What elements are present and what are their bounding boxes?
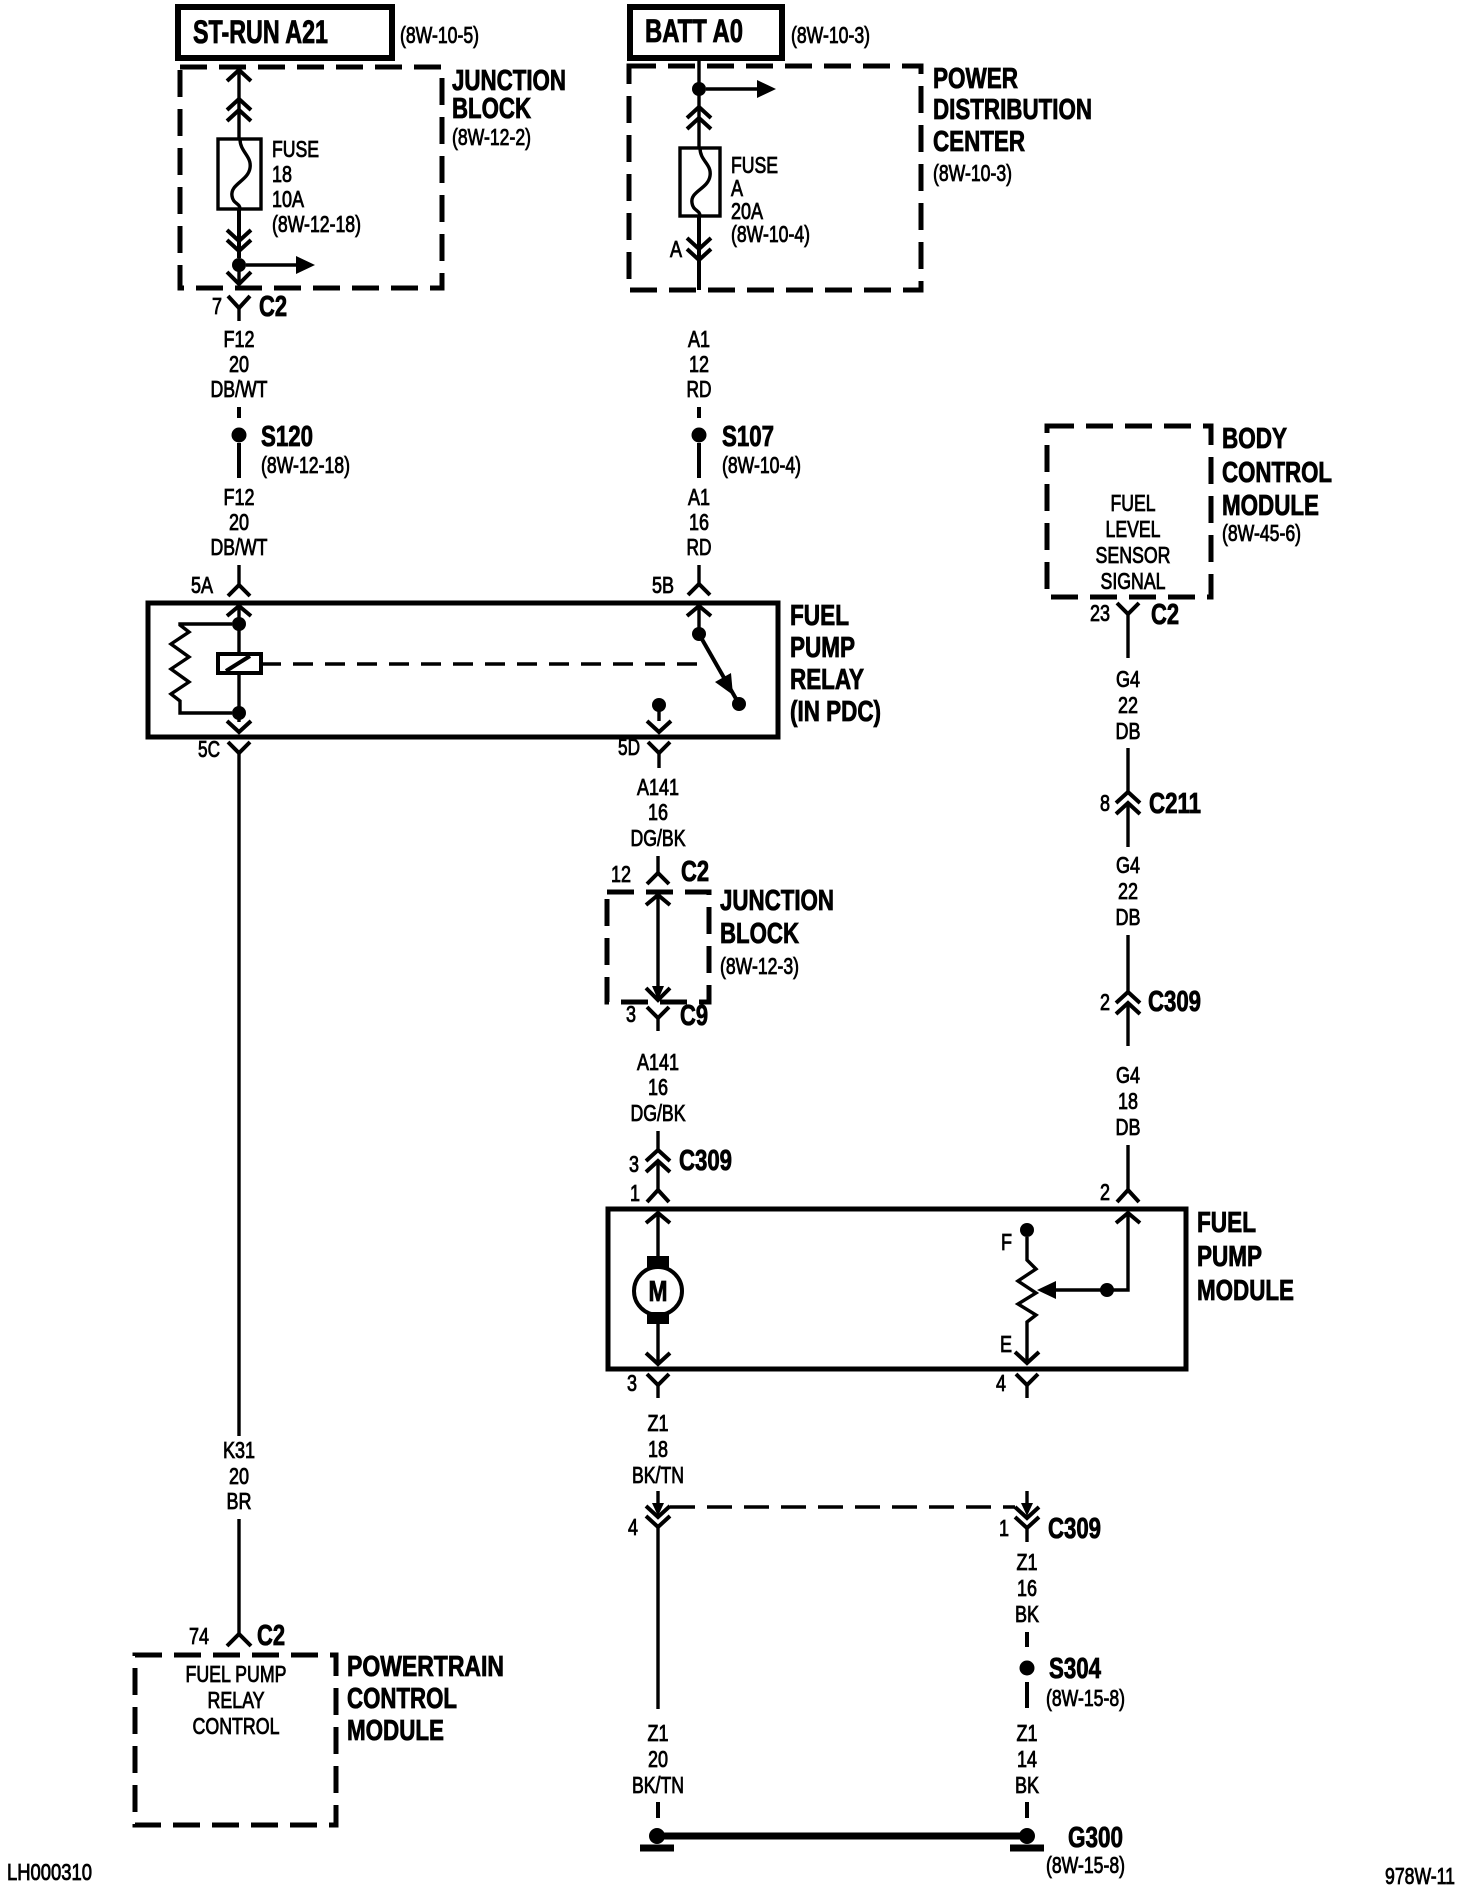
- wire into splice S120: [237, 407, 241, 418]
- wire C309 pin 4 down to ground: [656, 1527, 659, 1709]
- svg-text:4: 4: [996, 1370, 1006, 1396]
- svg-text:(8W-12-3): (8W-12-3): [720, 953, 799, 979]
- fuel pump module pin 3: [627, 1370, 669, 1398]
- svg-text:20: 20: [648, 1746, 668, 1772]
- relay switch output node: [647, 698, 671, 732]
- relay coil top node: [232, 617, 246, 631]
- svg-text:C2: C2: [1151, 599, 1179, 631]
- wire into connector C2 pin 12: [656, 856, 659, 873]
- svg-text:18: 18: [1118, 1088, 1138, 1114]
- svg-text:3: 3: [629, 1151, 639, 1177]
- svg-text:A1: A1: [688, 326, 710, 352]
- svg-text:RD: RD: [687, 534, 712, 560]
- svg-text:DG/BK: DG/BK: [631, 1100, 687, 1126]
- fuel pump module pin 2: [1100, 1179, 1139, 1205]
- svg-text:23: 23: [1090, 600, 1110, 626]
- svg-text:3: 3: [626, 1001, 636, 1027]
- wire into connector C309 pin 2: [1126, 935, 1129, 992]
- wire label Z1 14 BK: [1015, 1720, 1040, 1798]
- svg-text:SENSOR: SENSOR: [1096, 542, 1171, 568]
- svg-text:(8W-45-6): (8W-45-6): [1222, 520, 1301, 546]
- wire into connector C309 pin 3: [656, 1131, 659, 1150]
- junction dot in junction block: [232, 258, 246, 272]
- svg-text:12: 12: [689, 351, 709, 377]
- wire label G4 22 DB (middle): [1116, 852, 1141, 930]
- relay terminal 5D: [618, 734, 670, 768]
- svg-text:14: 14: [1017, 1746, 1037, 1772]
- relay switch common node: [692, 627, 706, 641]
- svg-text:BR: BR: [227, 1488, 252, 1514]
- relay coil input pin arrow: [227, 606, 251, 624]
- wire through junction block: [646, 895, 670, 1000]
- fuel pump motor M1: [634, 1213, 682, 1364]
- svg-text:DB: DB: [1116, 718, 1141, 744]
- relay switch common pin arrow: [687, 606, 711, 634]
- svg-text:M: M: [649, 1276, 668, 1308]
- junction dot in PDC: [692, 82, 706, 96]
- svg-text:FUEL: FUEL: [1197, 1207, 1256, 1239]
- svg-text:BLOCK: BLOCK: [720, 918, 799, 950]
- svg-text:ST-RUN A21: ST-RUN A21: [193, 14, 328, 50]
- svg-text:74: 74: [189, 1623, 209, 1649]
- wire 5C to PCM: [237, 768, 240, 1436]
- svg-text:A141: A141: [637, 1049, 679, 1075]
- ground G300: [1010, 1822, 1125, 1878]
- svg-text:BK/TN: BK/TN: [632, 1462, 684, 1488]
- svg-text:16: 16: [648, 1074, 668, 1100]
- wire label Z1 16 BK: [1015, 1549, 1040, 1627]
- svg-text:FUEL: FUEL: [1111, 490, 1156, 516]
- wire into left ground node: [656, 1802, 660, 1818]
- svg-text:18: 18: [272, 161, 292, 187]
- svg-text:978W-11: 978W-11: [1385, 1863, 1455, 1889]
- svg-text:BODY: BODY: [1222, 423, 1287, 455]
- relay coil resistor: [171, 624, 232, 713]
- svg-text:BLOCK: BLOCK: [452, 93, 531, 125]
- svg-text:1: 1: [999, 1515, 1009, 1541]
- fuel level sensor resistor: [1000, 1223, 1039, 1363]
- svg-text:A141: A141: [637, 774, 679, 800]
- svg-text:POWER: POWER: [933, 63, 1018, 95]
- relay actuation dashed link: [261, 662, 700, 666]
- svg-text:CENTER: CENTER: [933, 126, 1025, 158]
- svg-text:Z1: Z1: [648, 1720, 669, 1746]
- svg-text:(8W-10-4): (8W-10-4): [731, 221, 810, 247]
- wire label F12 20 DB/WT (upper): [211, 326, 268, 402]
- svg-text:20: 20: [229, 1463, 249, 1489]
- connector C2 pin 12: [611, 856, 709, 888]
- svg-text:BK/TN: BK/TN: [632, 1772, 684, 1798]
- wire label Z1 18 BK/TN: [632, 1410, 684, 1488]
- svg-text:8: 8: [1100, 790, 1110, 816]
- svg-text:G300: G300: [1068, 1822, 1123, 1854]
- connector C309 pin 1: [999, 1491, 1101, 1545]
- left ground node: [640, 1828, 674, 1848]
- svg-text:DB/WT: DB/WT: [211, 534, 268, 560]
- wire label A1 12 RD: [687, 326, 712, 402]
- wire label A141 16 DG/BK (lower): [631, 1049, 687, 1126]
- svg-text:5C: 5C: [198, 736, 220, 762]
- relay terminal 5B: [652, 565, 710, 598]
- fuel pump module pin 1: [630, 1180, 669, 1206]
- svg-text:DISTRIBUTION: DISTRIBUTION: [933, 94, 1092, 126]
- svg-text:PUMP: PUMP: [790, 632, 855, 664]
- svg-text:(8W-15-8): (8W-15-8): [1046, 1852, 1125, 1878]
- connector C211 pin 8: [1100, 788, 1201, 847]
- svg-text:(8W-12-2): (8W-12-2): [452, 124, 531, 150]
- svg-text:4: 4: [628, 1514, 638, 1540]
- svg-text:F12: F12: [224, 326, 255, 352]
- svg-text:20: 20: [229, 351, 249, 377]
- svg-text:G4: G4: [1116, 852, 1140, 878]
- svg-text:(IN PDC): (IN PDC): [790, 696, 881, 728]
- svg-text:MODULE: MODULE: [347, 1715, 444, 1747]
- power distribution center dashed outline: [629, 63, 1092, 290]
- wire BR to connector C2 pin 74: [237, 1519, 240, 1634]
- dashed connector C309 link: [670, 1505, 1015, 1509]
- svg-text:Z1: Z1: [1017, 1549, 1038, 1575]
- relay coil bottom node: [232, 706, 246, 720]
- svg-text:(8W-15-8): (8W-15-8): [1046, 1685, 1125, 1711]
- svg-text:(8W-10-5): (8W-10-5): [400, 22, 479, 48]
- fuel pump module pin 4: [996, 1370, 1038, 1398]
- svg-text:(8W-12-18): (8W-12-18): [272, 211, 361, 237]
- splice S107: [692, 421, 802, 478]
- svg-text:C2: C2: [681, 856, 709, 888]
- svg-text:CONTROL: CONTROL: [1222, 457, 1332, 489]
- ground bus wire: [657, 1833, 1027, 1840]
- svg-text:C309: C309: [679, 1145, 732, 1177]
- svg-text:A1: A1: [688, 484, 710, 510]
- svg-text:DG/BK: DG/BK: [631, 825, 687, 851]
- svg-text:CONTROL: CONTROL: [193, 1713, 280, 1739]
- svg-text:C211: C211: [1149, 788, 1201, 820]
- connector C2 pin 7: [212, 291, 287, 323]
- fuse 18 10A: [218, 136, 361, 237]
- svg-text:RELAY: RELAY: [790, 664, 864, 696]
- feed arrow to other circuits in PDC: [706, 80, 776, 98]
- svg-text:A: A: [670, 236, 683, 262]
- svg-text:S120: S120: [261, 421, 313, 453]
- svg-text:RD: RD: [687, 376, 712, 402]
- svg-text:LH000310: LH000310: [7, 1859, 92, 1885]
- connector C309 pin 2: [1100, 986, 1201, 1046]
- wire fuse 18 output to C2: [227, 209, 251, 258]
- feed arrow to other circuits: [246, 256, 315, 274]
- svg-text:C309: C309: [1048, 1513, 1101, 1545]
- fuel level sensor wiper feed: [1037, 1213, 1140, 1299]
- junction block (8W-12-2) dashed outline: [180, 65, 566, 288]
- svg-text:5D: 5D: [618, 734, 640, 760]
- splice S304: [1020, 1653, 1126, 1711]
- powertrain control module dashed box: [135, 1651, 504, 1825]
- svg-text:3: 3: [627, 1370, 637, 1396]
- svg-text:16: 16: [648, 799, 668, 825]
- svg-text:BK: BK: [1015, 1772, 1040, 1798]
- svg-text:22: 22: [1118, 878, 1138, 904]
- wire ST-RUN to fuse 18: [227, 70, 251, 139]
- junction block (8W-12-3) dashed outline: [607, 885, 834, 1002]
- wire label G4 18 DB: [1116, 1062, 1141, 1140]
- wire label A1 16 RD: [687, 484, 712, 560]
- svg-text:POWERTRAIN: POWERTRAIN: [347, 1651, 504, 1683]
- wire into connector C211: [1126, 748, 1129, 792]
- wire dot to connector C2 pin 7: [227, 265, 251, 284]
- svg-text:MODULE: MODULE: [1197, 1275, 1294, 1307]
- fuse A output pin A: [670, 216, 711, 290]
- wire label G4 22 DB (upper): [1116, 666, 1141, 744]
- wire into fuel pump module pin 2: [1126, 1145, 1129, 1190]
- svg-text:JUNCTION: JUNCTION: [720, 885, 834, 917]
- svg-text:C2: C2: [257, 1620, 285, 1652]
- svg-text:PUMP: PUMP: [1197, 1241, 1262, 1273]
- svg-text:18: 18: [648, 1436, 668, 1462]
- svg-text:DB: DB: [1116, 904, 1141, 930]
- svg-text:MODULE: MODULE: [1222, 490, 1319, 522]
- wire dot to fuse A: [687, 89, 711, 148]
- wire label F12 20 DB/WT (lower): [211, 484, 268, 560]
- svg-text:12: 12: [611, 861, 631, 887]
- svg-text:FUSE: FUSE: [272, 136, 319, 162]
- body control module dashed outline: [1047, 423, 1332, 597]
- svg-text:FUEL PUMP: FUEL PUMP: [186, 1661, 287, 1687]
- svg-text:RELAY: RELAY: [208, 1687, 265, 1713]
- svg-text:G4: G4: [1116, 1062, 1140, 1088]
- wire into ground G300: [1025, 1802, 1029, 1818]
- connector C2 pin 74: [189, 1620, 285, 1652]
- svg-text:F: F: [1001, 1229, 1012, 1255]
- svg-text:FUEL: FUEL: [790, 600, 849, 632]
- node BATT A0 feed box: [630, 7, 870, 58]
- svg-text:C2: C2: [259, 291, 287, 323]
- fuse A 20A: [680, 148, 810, 247]
- svg-text:C9: C9: [680, 1000, 708, 1032]
- svg-text:S107: S107: [722, 421, 774, 453]
- svg-text:Z1: Z1: [1017, 1720, 1038, 1746]
- svg-text:22: 22: [1118, 692, 1138, 718]
- svg-text:G4: G4: [1116, 666, 1140, 692]
- svg-text:20: 20: [229, 509, 249, 535]
- connector C2 pin 23: [1090, 599, 1179, 658]
- svg-text:5B: 5B: [652, 572, 674, 598]
- svg-text:LEVEL: LEVEL: [1106, 516, 1161, 542]
- wire label K31 20 BR: [223, 1437, 255, 1514]
- svg-text:(8W-10-3): (8W-10-3): [933, 160, 1012, 186]
- svg-text:K31: K31: [223, 1437, 255, 1463]
- wire through relay coil: [237, 624, 240, 713]
- wire BATT A0 into PDC: [697, 58, 700, 89]
- relay terminal 5C: [198, 736, 250, 768]
- relay switch blade: [699, 634, 746, 711]
- svg-text:(8W-10-4): (8W-10-4): [722, 452, 801, 478]
- relay coil output to 5C: [227, 713, 251, 732]
- connector C9 pin 3: [626, 1000, 708, 1032]
- svg-text:1: 1: [630, 1180, 640, 1206]
- splice S120: [232, 421, 351, 478]
- wire into splice S107: [697, 407, 701, 418]
- svg-text:BK: BK: [1015, 1601, 1040, 1627]
- svg-text:16: 16: [689, 509, 709, 535]
- svg-text:(8W-10-3): (8W-10-3): [791, 22, 870, 48]
- svg-text:F12: F12: [224, 484, 255, 510]
- wire label Z1 20 BK/TN: [632, 1720, 684, 1798]
- svg-text:S304: S304: [1049, 1653, 1101, 1685]
- wire label A141 16 DG/BK (upper): [631, 774, 687, 851]
- svg-text:C309: C309: [1148, 986, 1201, 1018]
- node ST-RUN A21 feed box: [178, 7, 479, 58]
- svg-text:SIGNAL: SIGNAL: [1101, 568, 1166, 594]
- relay coil symbol K: [218, 654, 261, 673]
- svg-text:Z1: Z1: [648, 1410, 669, 1436]
- fuel pump module box: [608, 1207, 1294, 1369]
- svg-text:7: 7: [212, 293, 222, 319]
- svg-text:2: 2: [1100, 1179, 1110, 1205]
- svg-text:E: E: [1000, 1331, 1012, 1357]
- fuel pump relay box: [148, 600, 881, 737]
- svg-text:2: 2: [1100, 989, 1110, 1015]
- svg-text:16: 16: [1017, 1575, 1037, 1601]
- svg-text:CONTROL: CONTROL: [347, 1683, 457, 1715]
- connector C309 pin 3: [629, 1145, 732, 1190]
- relay terminal 5A: [191, 565, 250, 598]
- connector C309 pin 4: [628, 1491, 670, 1540]
- svg-text:DB: DB: [1116, 1114, 1141, 1140]
- wire into splice S304: [1025, 1632, 1029, 1647]
- svg-text:10A: 10A: [272, 186, 305, 212]
- svg-text:DB/WT: DB/WT: [211, 376, 268, 402]
- svg-text:5A: 5A: [191, 572, 214, 598]
- svg-text:(8W-12-18): (8W-12-18): [261, 452, 350, 478]
- svg-text:BATT A0: BATT A0: [645, 13, 743, 49]
